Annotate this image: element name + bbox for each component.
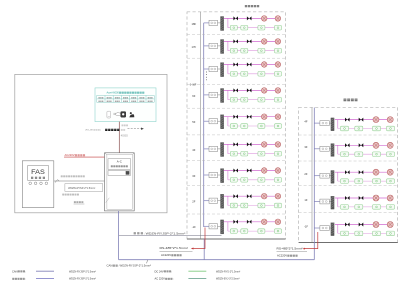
svg-text:WDZN-RYJSP-2*1.5mm²: WDZN-RYJSP-2*1.5mm² xyxy=(69,270,96,273)
icon: mobile phone xyxy=(107,111,111,118)
svg-text::: : xyxy=(25,270,26,273)
svg-text:RS-485*2*1.5mm²: RS-485*2*1.5mm² xyxy=(160,246,188,250)
workshop CAN/485 trunk xyxy=(313,108,315,260)
svg-text::: : xyxy=(171,270,172,273)
office trunk to CAN bus xyxy=(203,239,205,260)
svg-text:WDZN-BYJ-3*2.5mm²: WDZN-BYJ-3*2.5mm² xyxy=(216,278,240,281)
linkage label xyxy=(61,175,63,177)
controller cabinet A-C xyxy=(105,153,135,211)
svg-text:(RS-485: (RS-485 xyxy=(85,130,94,132)
svg-text:RS-485*2*1.5mm²: RS-485*2*1.5mm² xyxy=(277,246,303,250)
icon: operator xyxy=(130,112,132,114)
AC power stub to controller xyxy=(64,156,105,158)
workshop bottom border xyxy=(299,242,398,244)
workshop floor row 1F xyxy=(304,195,394,209)
control room outline xyxy=(15,74,167,212)
cable tag box xyxy=(65,184,103,192)
svg-text:A-C: A-C xyxy=(117,159,122,163)
workshop label column separator xyxy=(311,108,313,243)
office floor separator 5 xyxy=(187,134,286,136)
manual-control label xyxy=(62,194,64,196)
icon: link marks xyxy=(113,112,116,114)
svg-text:4G/5G: 4G/5G xyxy=(121,135,128,138)
wire: FAS to controller xyxy=(54,180,105,182)
workshop floor row 3F xyxy=(304,142,394,156)
dash-dot link with arrow xyxy=(128,128,142,130)
cloud platform panel xyxy=(95,88,156,122)
long CAN bus line xyxy=(119,259,315,261)
svg-text:3F: 3F xyxy=(192,174,196,178)
title: office building xyxy=(245,5,247,7)
svg-text:WDZN-RYS-2*1.5mm²: WDZN-RYS-2*1.5mm² xyxy=(216,270,240,273)
cabinet slot xyxy=(108,171,131,176)
office floor separator 8 xyxy=(187,213,286,215)
workshop floor separator 2 xyxy=(299,160,398,162)
svg-text:FAS: FAS xyxy=(31,169,45,176)
workshop floor separator 3 xyxy=(299,184,398,186)
bus wire to office riser xyxy=(119,234,222,236)
fire center label xyxy=(74,201,76,203)
office floor separator 6 xyxy=(187,160,286,162)
omitted floors dots xyxy=(205,71,208,74)
svg-text:4F: 4F xyxy=(192,148,196,152)
svg-text:CAN: CAN xyxy=(12,269,18,273)
workshop floor row 4F xyxy=(304,117,394,131)
wire: platform to gateway xyxy=(118,122,120,153)
workshop dashed frame xyxy=(299,108,398,243)
office floor separator 7 xyxy=(187,185,286,187)
svg-text:AC220V: AC220V xyxy=(65,153,75,157)
icon: cloud xyxy=(116,112,121,115)
bus riser from cabinet xyxy=(118,211,120,260)
workshop floor separator 1 xyxy=(299,134,398,136)
svg-text:: WDZN-RYJSP-2*1.5mm²: : WDZN-RYJSP-2*1.5mm² xyxy=(144,231,186,235)
svg-text:6F: 6F xyxy=(192,94,196,98)
svg-text:2F: 2F xyxy=(304,172,308,176)
svg-text:DC 24V: DC 24V xyxy=(155,269,164,273)
svg-text:5F: 5F xyxy=(192,120,196,124)
svg-text:17F: 17F xyxy=(191,45,196,49)
office floor separator 2 xyxy=(187,57,286,59)
FAS indicator lamps xyxy=(29,182,32,185)
workshop red riser xyxy=(305,232,318,249)
office floor separator 4 xyxy=(187,107,286,109)
svg-text:3~16F: 3~16F xyxy=(190,85,197,87)
office floor separator 1 xyxy=(187,34,286,36)
svg-text:2F: 2F xyxy=(192,200,196,204)
office red riser xyxy=(194,228,206,249)
office floor row 18F xyxy=(191,16,281,31)
office ladder bottom border xyxy=(187,238,286,240)
svg-text::: : xyxy=(173,278,174,281)
svg-text::: : xyxy=(25,278,26,281)
svg-text:4F: 4F xyxy=(304,120,308,124)
svg-text:-1F: -1F xyxy=(192,225,196,229)
svg-text:Acrel-6000: Acrel-6000 xyxy=(106,91,119,95)
gateway label (bold) xyxy=(105,129,107,131)
svg-text:AC 220V: AC 220V xyxy=(155,277,166,281)
legend: signal line xyxy=(12,278,14,280)
office floor row -1F xyxy=(192,219,282,234)
svg-text:): ) xyxy=(100,130,101,132)
office floor row 2F xyxy=(192,193,281,208)
svg-text:CAN: CAN xyxy=(107,264,113,268)
workshop floor row 2F xyxy=(304,169,394,183)
svg-text:AC220V: AC220V xyxy=(161,253,171,257)
icon: monitor xyxy=(121,112,126,118)
svg-text:1F: 1F xyxy=(304,198,308,202)
office floor row 3~16F xyxy=(190,62,282,87)
workshop floor separator 4 xyxy=(299,212,398,214)
office floor row 17F xyxy=(191,39,281,54)
svg-text:AC220V: AC220V xyxy=(277,254,287,258)
svg-text:3F: 3F xyxy=(304,145,308,149)
svg-text:WDZN-RYJSP-2*1.5mm²: WDZN-RYJSP-2*1.5mm² xyxy=(69,278,96,281)
cabinet door mark xyxy=(106,198,110,203)
cabinet header xyxy=(108,159,131,170)
office floor row 6F xyxy=(192,88,281,103)
svg-text:: WDZN-RYJSP-2*1.5mm²: : WDZN-RYJSP-2*1.5mm² xyxy=(118,264,151,268)
platform function table xyxy=(97,96,154,103)
title: workshop building xyxy=(344,99,347,102)
FAS host box xyxy=(22,161,54,208)
bus label xyxy=(134,232,136,234)
office floor separator 3 xyxy=(187,84,286,86)
svg-text:18F: 18F xyxy=(191,22,196,26)
svg-text:WDZN-RYSP-2*1.5mm²: WDZN-RYSP-2*1.5mm² xyxy=(68,187,95,190)
svg-text:-1F: -1F xyxy=(304,224,308,228)
ethernet label xyxy=(122,125,124,127)
office label column separator xyxy=(199,12,201,239)
office ladder dashed frame xyxy=(187,12,286,239)
workshop floor row -1F xyxy=(304,222,395,236)
office floor row 4F xyxy=(192,142,281,157)
office floor row 3F xyxy=(192,168,281,183)
office floor row 5F xyxy=(192,114,281,129)
office CAN/485 trunk xyxy=(203,23,205,227)
